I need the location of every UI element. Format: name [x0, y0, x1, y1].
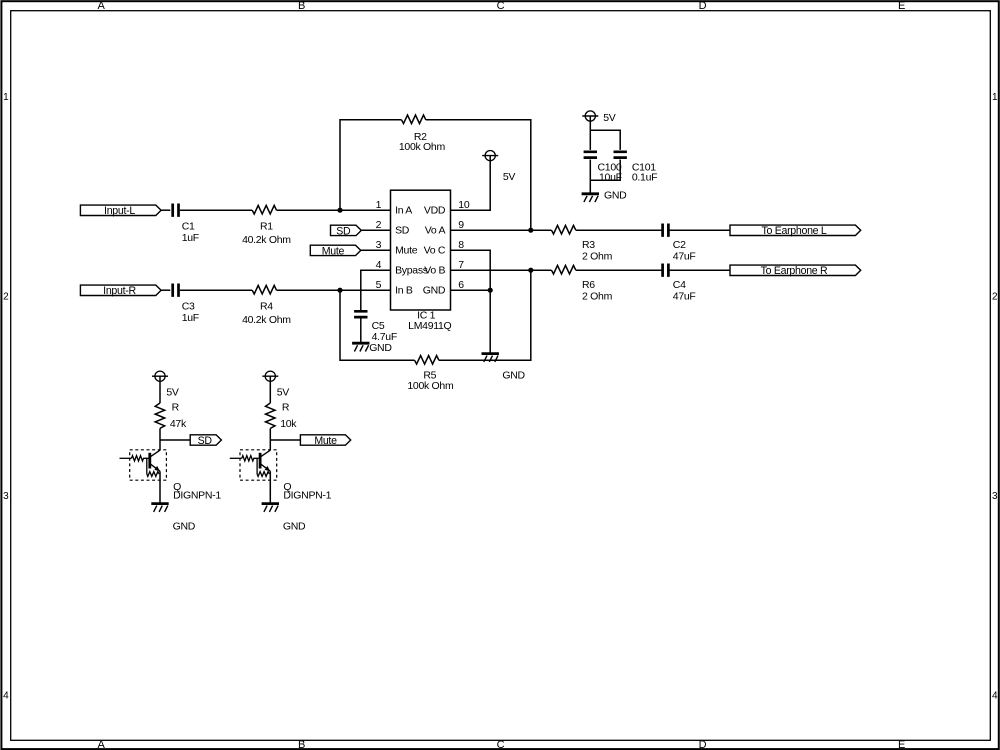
- svg-text:To Earphone R: To Earphone R: [761, 265, 828, 277]
- port Input-L: [80, 205, 161, 215]
- svg-text:Mute: Mute: [314, 435, 337, 447]
- svg-text:Vo A: Vo A: [425, 224, 446, 236]
- ground: [262, 502, 279, 505]
- svg-text:E: E: [898, 0, 905, 12]
- svg-text:2: 2: [376, 219, 382, 231]
- wire: [576, 269, 663, 271]
- ground: [582, 192, 599, 195]
- node In A junction: [337, 208, 342, 213]
- svg-text:47uF: 47uF: [673, 291, 696, 303]
- ground: [151, 502, 168, 505]
- svg-text:5V: 5V: [166, 386, 179, 398]
- node Vo B junction: [528, 268, 533, 273]
- port SD: [160, 439, 190, 441]
- port To Earphone R: [730, 265, 861, 275]
- svg-text:1: 1: [3, 92, 9, 103]
- svg-text:1uF: 1uF: [182, 312, 199, 324]
- svg-text:9: 9: [458, 219, 464, 231]
- resistor R5: [415, 355, 439, 364]
- svg-text:10k: 10k: [280, 418, 297, 430]
- svg-text:R: R: [282, 402, 290, 414]
- svg-text:LM4911Q: LM4911Q: [408, 320, 451, 332]
- svg-text:B: B: [298, 739, 305, 750]
- svg-text:40.2k Ohm: 40.2k Ohm: [242, 314, 291, 326]
- svg-text:C2: C2: [673, 239, 686, 251]
- svg-text:C3: C3: [182, 300, 195, 312]
- svg-text:Mute: Mute: [395, 244, 418, 256]
- transistor Q DIGNPN-1: [120, 450, 167, 480]
- capacitor C100: [584, 152, 597, 158]
- resistor R3: [552, 225, 576, 234]
- wire: [451, 289, 491, 291]
- svg-text:3: 3: [992, 491, 998, 502]
- wire: [277, 209, 391, 211]
- resistor R2: [402, 115, 426, 124]
- svg-text:0.1uF: 0.1uF: [632, 171, 657, 183]
- svg-text:GND: GND: [369, 342, 392, 354]
- svg-text:A: A: [97, 739, 105, 750]
- power 5V: [155, 371, 165, 381]
- svg-text:2: 2: [992, 292, 998, 303]
- svg-text:1uF: 1uF: [182, 232, 199, 244]
- wire: [361, 270, 391, 310]
- svg-text:A: A: [97, 0, 105, 12]
- svg-text:Input-L: Input-L: [104, 205, 135, 217]
- ground: [482, 352, 499, 355]
- svg-text:Vo B: Vo B: [424, 264, 445, 276]
- wire: [590, 130, 620, 150]
- svg-text:10uF: 10uF: [599, 171, 622, 183]
- wire: [161, 289, 170, 291]
- capacitor C5: [354, 311, 367, 317]
- svg-text:8: 8: [458, 239, 464, 251]
- resistor R 47k: [155, 403, 165, 428]
- power 5V: [265, 371, 275, 381]
- svg-text:D: D: [699, 0, 707, 12]
- capacitor C101: [614, 152, 627, 158]
- svg-text:4: 4: [3, 691, 9, 702]
- svg-text:5V: 5V: [503, 171, 516, 183]
- node Vo A junction: [528, 228, 533, 233]
- resistor R4: [252, 285, 276, 294]
- svg-text:GND: GND: [173, 520, 196, 532]
- wire: [451, 229, 552, 231]
- wire: [269, 428, 271, 450]
- node GND junction: [488, 288, 493, 293]
- svg-text:C4: C4: [673, 279, 686, 291]
- port Mute: [310, 245, 361, 255]
- wire: [439, 270, 531, 360]
- svg-text:E: E: [898, 739, 905, 750]
- wire: [576, 229, 663, 231]
- svg-text:Vo C: Vo C: [424, 244, 446, 256]
- wire: [277, 289, 391, 291]
- svg-text:40.2k Ohm: 40.2k Ohm: [242, 234, 291, 246]
- svg-text:In A: In A: [395, 204, 412, 216]
- svg-text:GND: GND: [283, 520, 306, 532]
- svg-text:GND: GND: [423, 284, 446, 296]
- svg-text:In B: In B: [395, 284, 413, 296]
- svg-text:B: B: [298, 0, 305, 12]
- svg-text:47k: 47k: [170, 418, 187, 430]
- wire: [589, 116, 591, 150]
- svg-text:C1: C1: [182, 220, 195, 232]
- wire: [161, 209, 170, 211]
- svg-text:2 Ohm: 2 Ohm: [582, 251, 613, 263]
- svg-text:6: 6: [458, 279, 464, 291]
- svg-text:R: R: [172, 402, 180, 414]
- svg-text:DIGNPN-1: DIGNPN-1: [283, 489, 331, 501]
- capacitor C4: [663, 264, 669, 277]
- wire: [269, 471, 271, 503]
- resistor R 10k: [266, 403, 276, 428]
- wire: [451, 250, 491, 353]
- wire: [426, 120, 531, 230]
- wire: [451, 269, 552, 271]
- svg-text:SD: SD: [198, 435, 213, 447]
- svg-text:Mute: Mute: [322, 245, 345, 257]
- ground: [352, 342, 369, 345]
- power 5V: [485, 151, 495, 161]
- wire: [590, 160, 620, 181]
- transistor Q DIGNPN-1: [230, 450, 277, 480]
- wire: [180, 209, 252, 211]
- svg-text:100k Ohm: 100k Ohm: [407, 380, 454, 392]
- svg-text:GND: GND: [604, 189, 627, 201]
- svg-text:5V: 5V: [277, 386, 290, 398]
- svg-text:5V: 5V: [603, 112, 616, 124]
- capacitor C2: [663, 224, 669, 237]
- port Input-R: [80, 285, 161, 295]
- svg-text:1: 1: [376, 199, 382, 211]
- svg-text:R6: R6: [582, 279, 595, 291]
- wire: [361, 249, 391, 251]
- resistor R6: [552, 265, 576, 274]
- wire: [589, 160, 591, 194]
- wire: [361, 229, 390, 231]
- wire: [159, 376, 161, 403]
- wire: [340, 120, 402, 210]
- svg-text:3: 3: [376, 239, 382, 251]
- svg-text:VDD: VDD: [424, 204, 446, 216]
- wire: [668, 269, 730, 271]
- wire: [340, 290, 415, 360]
- wire: [451, 156, 491, 211]
- op-amp IC 1 LM4911Q: [391, 190, 451, 310]
- port SD: [331, 225, 362, 235]
- capacitor C1: [173, 204, 179, 217]
- svg-text:SD: SD: [395, 224, 410, 236]
- svg-text:Input-R: Input-R: [103, 285, 136, 297]
- svg-text:To Earphone L: To Earphone L: [761, 225, 826, 237]
- svg-text:7: 7: [458, 259, 464, 271]
- svg-text:SD: SD: [336, 225, 351, 237]
- svg-text:DIGNPN-1: DIGNPN-1: [173, 489, 221, 501]
- wire: [360, 318, 362, 343]
- svg-text:5: 5: [376, 279, 382, 291]
- svg-text:100k Ohm: 100k Ohm: [399, 141, 446, 153]
- port To Earphone L: [730, 225, 861, 235]
- svg-text:47uF: 47uF: [673, 251, 696, 263]
- svg-text:GND: GND: [502, 369, 525, 381]
- svg-text:C: C: [497, 0, 505, 12]
- svg-text:4: 4: [376, 259, 382, 271]
- wire: [668, 229, 730, 231]
- port Mute: [270, 439, 300, 441]
- svg-text:Bypass: Bypass: [395, 264, 428, 276]
- capacitor C3: [173, 284, 179, 297]
- svg-text:3: 3: [3, 491, 9, 502]
- wire: [159, 428, 161, 450]
- svg-text:R3: R3: [582, 239, 595, 251]
- svg-text:D: D: [699, 739, 707, 750]
- wire: [180, 289, 252, 291]
- svg-text:2 Ohm: 2 Ohm: [582, 291, 613, 303]
- power 5V: [585, 111, 595, 121]
- svg-text:C: C: [497, 739, 505, 750]
- svg-text:R1: R1: [260, 220, 273, 232]
- node In B junction: [337, 288, 342, 293]
- svg-text:1: 1: [992, 92, 998, 103]
- svg-text:R4: R4: [260, 300, 273, 312]
- svg-text:2: 2: [3, 292, 9, 303]
- wire: [159, 471, 161, 503]
- resistor R1: [252, 205, 276, 214]
- wire: [269, 376, 271, 403]
- svg-text:4: 4: [992, 691, 998, 702]
- svg-text:10: 10: [458, 199, 470, 211]
